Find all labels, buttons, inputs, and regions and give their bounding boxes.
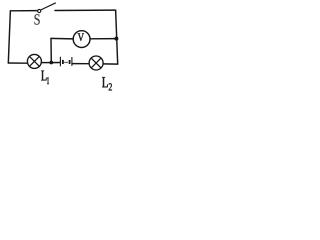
voltmeter V (73, 31, 90, 48)
lamp L1 (27, 54, 41, 68)
wire bottom-left corner to lamp L1 (8, 62, 28, 64)
wire node A to battery (51, 62, 60, 64)
label L2 letter (102, 77, 108, 87)
wire voltmeter to node B (90, 38, 116, 40)
node B junction dot (114, 37, 118, 41)
wire voltmeter branch vertical (node A up to corner) (50, 38, 52, 63)
wire voltmeter corner to voltmeter (50, 37, 72, 40)
wire switch to top-right corner (54, 9, 115, 11)
label V (78, 33, 84, 41)
wire left side (8, 10, 10, 63)
label S (35, 14, 40, 25)
switch S (38, 3, 56, 13)
wire battery to lamp L2 (72, 63, 89, 65)
lamp L2 (89, 56, 103, 70)
label L2 subscript (109, 83, 112, 90)
label L1 letter (41, 71, 46, 81)
wire lamp L2 to bottom-right corner (103, 63, 119, 65)
wire lamp L1 to node A (41, 62, 52, 64)
node A junction dot (49, 61, 53, 65)
wire right side (116, 10, 118, 65)
wire top-left to switch (10, 10, 37, 12)
label L1 subscript (47, 77, 49, 84)
battery B1 (60, 57, 72, 67)
